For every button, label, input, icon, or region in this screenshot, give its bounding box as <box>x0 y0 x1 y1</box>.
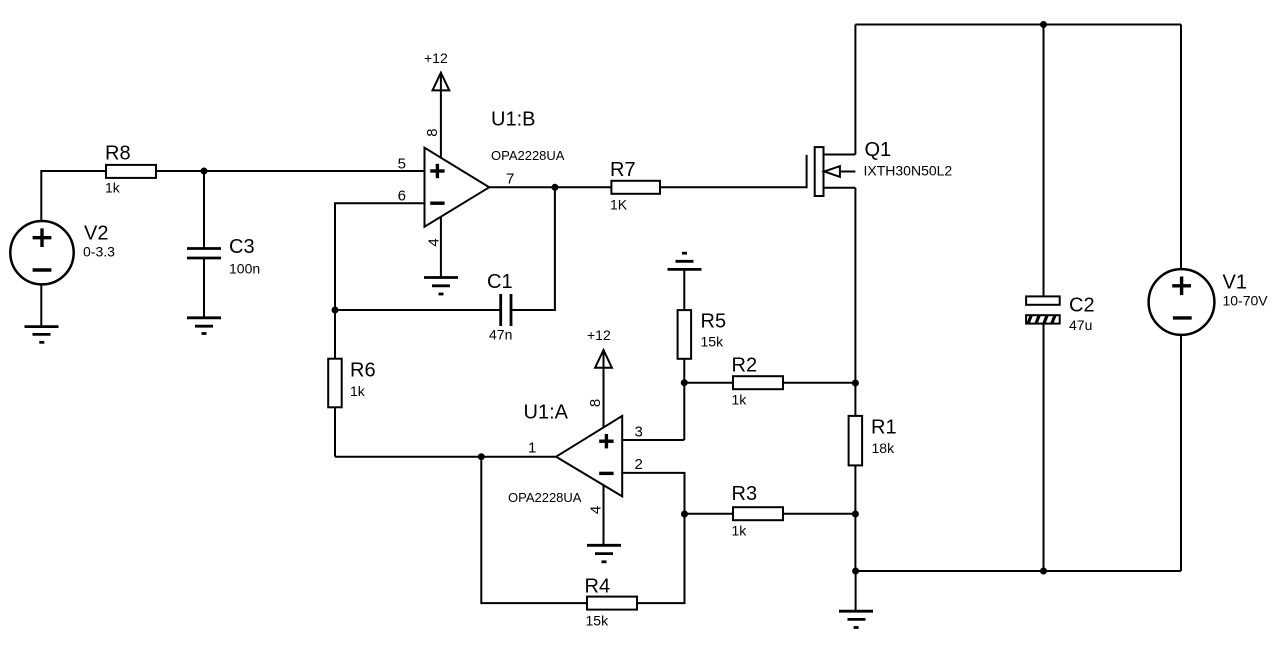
capacitor C1 <box>501 294 511 326</box>
wire node G to bottom rail <box>854 514 856 571</box>
svg-text:OPA2228UA: OPA2228UA <box>508 490 582 505</box>
svg-text:3: 3 <box>635 424 643 441</box>
wire R7 to Q1 gate <box>660 186 807 188</box>
svg-text:2: 2 <box>635 456 643 473</box>
svg-text:1k: 1k <box>350 383 366 399</box>
wire U1:A pin 4 to ground <box>603 485 605 545</box>
svg-text:1K: 1K <box>610 197 628 213</box>
ground under C3 <box>187 318 221 334</box>
wire R2 to node F <box>783 382 855 384</box>
resistor R7 <box>611 181 660 194</box>
svg-text:8: 8 <box>424 128 441 136</box>
wire R1 bottom to node G <box>854 465 856 514</box>
wire node A to U1:B pin 5 <box>204 170 425 172</box>
svg-text:U1:B: U1:B <box>491 109 535 131</box>
svg-text:1k: 1k <box>732 392 748 408</box>
wire bottom rail <box>855 570 1181 572</box>
wire U1:A pin 2 row to node J <box>622 473 684 514</box>
svg-text:R3: R3 <box>732 483 758 505</box>
svg-text:4: 4 <box>425 238 442 246</box>
svg-text:7: 7 <box>506 171 514 188</box>
wire node J to R3 <box>685 513 734 515</box>
svg-text:R8: R8 <box>105 143 131 165</box>
inverted ground above R5 <box>668 253 702 269</box>
wire U1:B pin 6 to node B <box>335 203 425 310</box>
node I junction (R5/R2) <box>681 379 688 386</box>
svg-text:C1: C1 <box>487 271 513 293</box>
wire R3 to node G <box>783 513 855 515</box>
wire V1 top <box>1180 25 1182 270</box>
wire V1 bottom <box>1180 335 1182 571</box>
svg-text:Q1: Q1 <box>865 139 892 161</box>
wire U1:B pin 4 to ground <box>440 217 442 278</box>
svg-text:R2: R2 <box>732 355 758 377</box>
node G junction (R1/R3) <box>852 511 859 518</box>
svg-text:OPA2228UA: OPA2228UA <box>491 148 565 163</box>
wire top rail <box>855 24 1181 26</box>
svg-text:1: 1 <box>528 440 536 457</box>
svg-text:+12: +12 <box>587 327 611 343</box>
node H junction (bottom rail / ground) <box>852 568 859 575</box>
ground under V2 <box>25 327 59 343</box>
svg-text:V2: V2 <box>84 223 108 245</box>
svg-text:5: 5 <box>398 156 406 173</box>
svg-text:R7: R7 <box>610 159 636 181</box>
svg-text:0-3.3: 0-3.3 <box>83 244 115 260</box>
op-amp U1:A <box>556 416 622 497</box>
ground under U1:A <box>587 545 621 562</box>
wire R4 to node J <box>637 514 685 603</box>
resistor R4 <box>587 597 637 610</box>
node K junction (output/R4) <box>478 453 485 460</box>
wire node B down to R6 <box>334 310 336 359</box>
wire C1 to node C <box>511 187 555 310</box>
voltage source V2 <box>10 221 73 284</box>
svg-text:C3: C3 <box>229 236 255 258</box>
svg-text:47u: 47u <box>1069 317 1092 333</box>
resistor R6 <box>328 359 342 408</box>
wire node K down to R4 <box>481 457 587 603</box>
node A junction <box>201 168 208 175</box>
svg-text:IXTH30N50L2: IXTH30N50L2 <box>864 163 953 179</box>
node B junction (feedback node) <box>332 307 339 314</box>
svg-text:15k: 15k <box>701 334 725 350</box>
resistor R5 <box>678 310 692 359</box>
voltage source V1 <box>1149 269 1215 335</box>
wire R6 bottom to U1:A output row <box>334 407 336 456</box>
svg-text:8: 8 <box>587 399 604 407</box>
wire Q1 drain up to top rail <box>854 25 856 155</box>
svg-text:15k: 15k <box>586 613 610 629</box>
svg-text:R5: R5 <box>701 311 727 333</box>
svg-text:100n: 100n <box>229 261 260 277</box>
wire U1:A output row <box>335 456 556 458</box>
node D junction (top rail / C2) <box>1040 21 1047 28</box>
wire R5 bottom to U1:A pin 3 row <box>683 359 685 440</box>
transistor Q1 <box>807 147 856 196</box>
wire node B to C1 <box>335 309 500 311</box>
resistor R1 <box>849 416 863 466</box>
resistor R2 <box>733 376 783 389</box>
wire V2 top to R8 <box>41 171 106 222</box>
svg-text:18k: 18k <box>872 440 896 456</box>
svg-text:4: 4 <box>587 506 604 514</box>
svg-text:C2: C2 <box>1069 295 1095 317</box>
svg-text:+12: +12 <box>424 50 448 66</box>
power symbol +12 for U1:B pin 8 <box>433 73 450 158</box>
svg-text:47n: 47n <box>489 327 512 343</box>
svg-text:R6: R6 <box>350 360 376 382</box>
node E junction (bottom rail / C2) <box>1040 568 1047 575</box>
power symbol +12 for U1:A pin 8 <box>595 350 612 427</box>
svg-text:R4: R4 <box>585 576 611 598</box>
svg-text:V1: V1 <box>1223 272 1247 294</box>
resistor R8 <box>106 165 156 178</box>
capacitor C2 <box>1026 296 1060 323</box>
svg-text:U1:A: U1:A <box>524 402 569 424</box>
wire U1:B output row <box>489 186 611 188</box>
wire R8 to node A <box>156 170 204 172</box>
node F junction (sense node top) <box>852 380 859 387</box>
wire V2 bottom to ground <box>40 284 42 326</box>
node J junction (pin2/R3/R4) <box>681 511 688 518</box>
resistor R3 <box>733 507 783 520</box>
svg-text:6: 6 <box>398 188 406 205</box>
wire C2 top <box>1043 25 1045 297</box>
wire node I to R2 <box>684 382 733 384</box>
wire node A down to C3 <box>203 171 205 248</box>
svg-text:1k: 1k <box>105 180 121 196</box>
wire U1:A pin 3 row <box>622 439 684 441</box>
wire node H to ground <box>855 571 857 611</box>
svg-text:1k: 1k <box>732 523 748 539</box>
op-amp U1:B <box>425 148 490 227</box>
ground bottom right <box>839 611 873 627</box>
svg-text:R1: R1 <box>871 417 897 439</box>
node C junction (U1:B output) <box>551 184 558 191</box>
wire Q1 source down to node F <box>854 188 856 383</box>
wire C2 bottom <box>1043 324 1045 571</box>
ground under U1:B <box>424 278 458 295</box>
wire C3 to ground <box>203 258 205 318</box>
wire node F to R1 <box>854 383 856 416</box>
capacitor C3 <box>187 249 221 259</box>
svg-text:10-70V: 10-70V <box>1223 293 1269 309</box>
wire inverted ground to R5 <box>683 269 685 310</box>
